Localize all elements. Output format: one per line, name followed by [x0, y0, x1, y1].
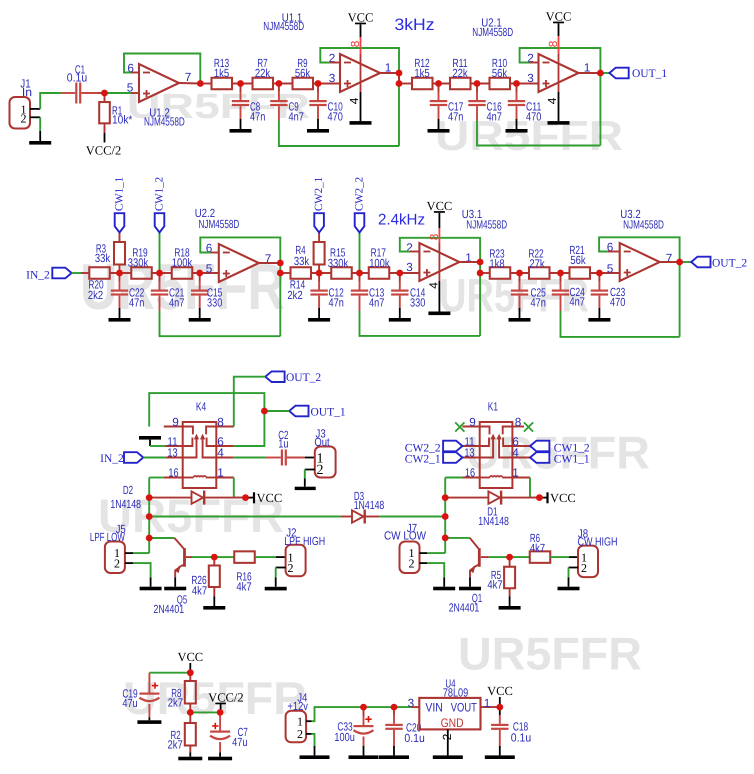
svg-text:1: 1	[217, 466, 224, 480]
svg-text:4k7: 4k7	[192, 584, 207, 598]
svg-text:100k: 100k	[369, 256, 389, 270]
svg-text:470: 470	[526, 110, 542, 124]
svg-text:13: 13	[464, 446, 475, 460]
svg-text:100u: 100u	[334, 730, 354, 744]
svg-text:2k7: 2k7	[167, 737, 182, 751]
svg-text:D2: D2	[123, 483, 133, 497]
svg-text:CW2_2: CW2_2	[353, 177, 365, 211]
svg-text:2N4401: 2N4401	[154, 602, 185, 616]
svg-text:CW HIGH: CW HIGH	[578, 535, 618, 549]
svg-text:1k8: 1k8	[489, 257, 505, 271]
svg-text:4: 4	[347, 97, 361, 104]
svg-text:3: 3	[406, 260, 413, 274]
svg-text:330k: 330k	[328, 256, 348, 270]
svg-text:330: 330	[410, 296, 426, 310]
svg-text:NJM4558D: NJM4558D	[623, 218, 664, 232]
svg-text:2: 2	[406, 241, 413, 255]
svg-text:4n7: 4n7	[487, 110, 502, 124]
svg-text:2: 2	[288, 561, 294, 575]
svg-text:2.4kHz: 2.4kHz	[378, 212, 425, 229]
svg-text:1N4148: 1N4148	[110, 497, 141, 511]
svg-text:2: 2	[21, 112, 27, 126]
svg-text:33k: 33k	[294, 254, 309, 268]
svg-text:NJM4558D: NJM4558D	[144, 114, 185, 128]
svg-text:K1: K1	[488, 399, 498, 413]
svg-text:4: 4	[427, 282, 441, 289]
svg-text:4k7: 4k7	[487, 578, 502, 592]
svg-text:NJM4558D: NJM4558D	[199, 217, 240, 231]
svg-text:UR5FFR: UR5FFR	[458, 628, 642, 680]
svg-text:VCC: VCC	[550, 491, 576, 505]
svg-text:8: 8	[427, 233, 441, 240]
svg-text:VCC: VCC	[177, 650, 203, 664]
svg-text:2: 2	[440, 734, 454, 741]
svg-text:1k5: 1k5	[214, 66, 230, 80]
svg-text:9: 9	[172, 415, 179, 429]
svg-text:2k7: 2k7	[168, 696, 183, 710]
svg-text:VCC/2: VCC/2	[86, 143, 121, 157]
svg-text:47n: 47n	[329, 296, 344, 310]
svg-text:56k: 56k	[570, 253, 585, 267]
svg-text:4k7: 4k7	[530, 541, 545, 555]
svg-text:4n7: 4n7	[289, 110, 304, 124]
svg-text:5: 5	[607, 261, 614, 275]
svg-text:OUT_1: OUT_1	[311, 407, 346, 419]
svg-text:VCC: VCC	[546, 9, 572, 23]
svg-text:4k7: 4k7	[236, 580, 251, 594]
svg-text:22k: 22k	[452, 66, 467, 80]
svg-text:1: 1	[512, 466, 519, 480]
svg-text:5: 5	[127, 81, 134, 95]
svg-text:LPF LOW: LPF LOW	[90, 530, 126, 544]
svg-text:2: 2	[581, 561, 587, 575]
svg-text:0.1u: 0.1u	[404, 731, 424, 745]
svg-text:K4: K4	[196, 399, 207, 413]
svg-text:16: 16	[168, 466, 179, 480]
svg-text:33k: 33k	[95, 251, 110, 265]
svg-text:330k: 330k	[128, 256, 148, 270]
svg-text:8: 8	[348, 40, 362, 47]
svg-text:0.1u: 0.1u	[67, 71, 87, 85]
svg-text:3kHz: 3kHz	[395, 16, 435, 34]
svg-text:22k: 22k	[255, 66, 270, 80]
svg-text:+12v: +12v	[288, 699, 308, 713]
svg-text:7: 7	[185, 70, 192, 84]
svg-text:2: 2	[409, 557, 415, 571]
svg-text:VCC: VCC	[348, 10, 374, 24]
svg-text:CW1_1: CW1_1	[113, 177, 125, 211]
svg-text:4n7: 4n7	[169, 296, 184, 310]
svg-text:CW LOW: CW LOW	[384, 529, 427, 543]
svg-text:10k*: 10k*	[112, 113, 133, 127]
svg-text:VIN: VIN	[425, 701, 443, 715]
svg-text:2: 2	[114, 557, 120, 571]
svg-text:4n7: 4n7	[369, 296, 384, 310]
svg-text:3: 3	[527, 71, 534, 85]
svg-text:VCC: VCC	[427, 199, 453, 213]
svg-text:OUT_2: OUT_2	[286, 372, 321, 384]
svg-text:470: 470	[610, 295, 626, 309]
svg-text:100k: 100k	[172, 256, 192, 270]
svg-text:47u: 47u	[122, 696, 137, 710]
svg-text:VCC/2: VCC/2	[208, 690, 243, 704]
svg-text:Out: Out	[314, 435, 330, 449]
svg-text:CW2_1: CW2_1	[405, 454, 441, 466]
svg-text:1N4148: 1N4148	[478, 514, 509, 528]
svg-text:47n: 47n	[448, 110, 463, 124]
svg-text:16: 16	[465, 466, 476, 480]
svg-text:78L09: 78L09	[443, 685, 469, 699]
svg-text:8: 8	[217, 415, 224, 429]
svg-text:VCC: VCC	[257, 491, 283, 505]
svg-text:2N4401: 2N4401	[449, 601, 480, 615]
svg-text:3: 3	[329, 71, 336, 85]
svg-text:330: 330	[207, 296, 223, 310]
svg-text:0.1u: 0.1u	[511, 730, 531, 744]
svg-text:8: 8	[546, 40, 560, 47]
svg-text:1u: 1u	[278, 437, 288, 451]
svg-text:VCC: VCC	[487, 684, 513, 698]
svg-text:5: 5	[206, 262, 213, 276]
svg-text:56k: 56k	[295, 66, 310, 80]
svg-text:7: 7	[666, 251, 673, 265]
svg-text:CW1_1: CW1_1	[554, 454, 590, 466]
svg-text:4: 4	[545, 97, 559, 104]
svg-text:IN_2: IN_2	[26, 270, 50, 282]
svg-text:LPF HIGH: LPF HIGH	[284, 534, 325, 548]
svg-text:8: 8	[515, 415, 522, 429]
svg-text:47n: 47n	[250, 110, 265, 124]
svg-text:CW1_2: CW1_2	[153, 177, 165, 211]
svg-text:13: 13	[167, 446, 178, 460]
svg-text:IN_2: IN_2	[100, 453, 124, 465]
svg-text:In: In	[22, 85, 32, 99]
svg-text:47n: 47n	[129, 296, 144, 310]
svg-text:27k: 27k	[529, 257, 544, 271]
svg-text:NJM4558D: NJM4558D	[472, 25, 513, 39]
svg-text:2k2: 2k2	[287, 288, 302, 302]
svg-text:470: 470	[328, 110, 344, 124]
svg-text:47n: 47n	[531, 296, 546, 310]
svg-text:4: 4	[217, 446, 224, 460]
svg-text:1k5: 1k5	[414, 66, 430, 80]
svg-text:GND: GND	[441, 716, 464, 730]
svg-text:56k: 56k	[492, 66, 507, 80]
svg-text:2: 2	[317, 463, 324, 478]
svg-text:2: 2	[297, 727, 303, 741]
svg-text:VOUT: VOUT	[451, 701, 477, 715]
svg-text:9: 9	[469, 415, 476, 429]
svg-text:OUT_1: OUT_1	[632, 68, 667, 80]
svg-text:4n7: 4n7	[570, 295, 585, 309]
svg-text:NJM4558D: NJM4558D	[263, 19, 304, 33]
svg-text:NJM4558D: NJM4558D	[466, 218, 507, 232]
svg-text:47u: 47u	[232, 735, 247, 749]
svg-text:2k2: 2k2	[88, 288, 103, 302]
svg-text:CW2_1: CW2_1	[313, 177, 325, 211]
svg-text:OUT_2: OUT_2	[712, 258, 747, 270]
svg-text:1N4148: 1N4148	[354, 498, 385, 512]
svg-text:4: 4	[512, 446, 519, 460]
